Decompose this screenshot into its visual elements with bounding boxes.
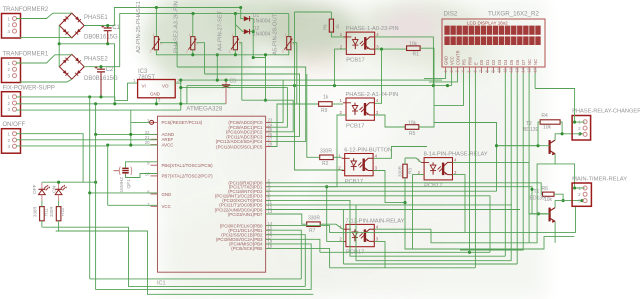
- svg-text:2: 2: [282, 49, 284, 53]
- wire T1 collector: [555, 201, 583, 208]
- wire T1 emitter: [554, 221, 556, 242]
- ATMEGA left pin labels: [145, 118, 213, 209]
- wire: [560, 122, 562, 134]
- svg-text:FIX-POWER-SUPP: FIX-POWER-SUPP: [3, 85, 55, 91]
- svg-text:D3: D3: [497, 59, 502, 65]
- wire: [84, 14, 288, 67]
- svg-text:8-14-PIN-PHASE-RELAY: 8-14-PIN-PHASE-RELAY: [424, 152, 488, 158]
- wire LCD GND: [424, 73, 446, 78]
- wire: [16, 13, 72, 18]
- resistor R5 10k: [405, 120, 419, 137]
- svg-text:PB7(XTAL2/TOSC2/PCI7): PB7(XTAL2/TOSC2/PCI7): [162, 174, 214, 179]
- svg-text:VCC: VCC: [162, 204, 171, 209]
- svg-text:D1: D1: [485, 59, 490, 65]
- wire 7805 ground: [155, 98, 157, 104]
- trimmer A5-PIN-28-OUT: [273, 13, 295, 55]
- ATMEGA right pin labels: [215, 118, 273, 252]
- wire LCD D4: [504, 73, 506, 256]
- wire GND pin8: [90, 97, 158, 193]
- svg-text:TUXGR_16X2_R2: TUXGR_16X2_R2: [488, 11, 539, 18]
- svg-text:PHASE-RELAY-CHANGER: PHASE-RELAY-CHANGER: [572, 109, 640, 115]
- resistor R11 330R: [33, 207, 49, 221]
- svg-text:2: 2: [186, 49, 188, 53]
- svg-text:14: 14: [520, 67, 525, 72]
- wire bus C: [96, 134, 312, 289]
- wire ON-OFF pin3: [16, 144, 108, 147]
- svg-text:1: 1: [152, 33, 154, 37]
- crystal QF1 16MHZ: [114, 167, 132, 193]
- wire: [375, 48, 407, 50]
- svg-text:330R: 330R: [33, 207, 38, 218]
- wire wiper A2: [160, 43, 177, 67]
- LCD display DIS2 TUXGR_16X2_R2: [442, 11, 545, 68]
- wire FIX pin1: [16, 97, 115, 104]
- wire LCD RS: [434, 73, 538, 191]
- connector FIX-POWER-SUPP: [2, 85, 55, 116]
- svg-text:C2: C2: [106, 67, 114, 73]
- wire: [453, 175, 466, 233]
- svg-text:28: 28: [268, 142, 273, 147]
- wire: [266, 214, 307, 224]
- svg-text:10k: 10k: [409, 42, 418, 48]
- svg-text:IC1: IC1: [157, 281, 166, 287]
- svg-text:16MHZ: 16MHZ: [119, 177, 125, 193]
- wire PD6: [266, 209, 520, 211]
- wire LCD CONTR: [429, 73, 458, 82]
- svg-text:D2: D2: [491, 59, 496, 65]
- capacitor C2: [95, 66, 114, 97]
- svg-text:VCC: VCC: [449, 56, 454, 65]
- optocoupler PHASE-2-A1-24-PIN: [340, 92, 399, 129]
- wire: [535, 89, 585, 123]
- wire diode outputs: [250, 19, 266, 101]
- wire: [343, 210, 517, 265]
- wire: [453, 162, 547, 213]
- svg-text:AREF: AREF: [162, 137, 174, 142]
- wire GND rail to LCD: [187, 85, 452, 87]
- svg-text:GND: GND: [150, 92, 161, 97]
- svg-text:330R: 330R: [49, 207, 54, 218]
- svg-text:16: 16: [532, 67, 537, 72]
- svg-text:15: 15: [526, 67, 531, 72]
- svg-text:PC6(/RESET/PCI14): PC6(/RESET/PCI14): [162, 120, 203, 125]
- svg-text:1: 1: [285, 33, 287, 37]
- resistor R4 10k: [540, 113, 560, 131]
- wire step: [405, 203, 574, 249]
- wire A1 rail: [181, 88, 288, 128]
- connector TRANFORMER1: [2, 52, 49, 83]
- svg-text:12: 12: [508, 67, 513, 72]
- wire: [192, 14, 194, 37]
- wire LCD RW: [469, 73, 471, 252]
- wire: [555, 164, 575, 187]
- svg-text:RS: RS: [461, 59, 466, 65]
- capacitor C3: [225, 80, 227, 104]
- wire LCD D7: [460, 73, 523, 250]
- svg-text:PHASE2-A3-26-PIN: PHASE2-A3-26-PIN: [174, 1, 180, 53]
- diode D1 1N4004: [244, 13, 271, 25]
- svg-text:BD139: BD139: [530, 196, 546, 202]
- wire LCD D5: [510, 73, 512, 261]
- wire PD4: [266, 200, 506, 256]
- svg-text:1N4004: 1N4004: [253, 19, 271, 25]
- svg-text:7-13-PIN-MAIN-RELAY: 7-13-PIN-MAIN-RELAY: [345, 218, 404, 224]
- wire: [16, 55, 72, 63]
- wire trimmer bottom bus: [156, 50, 288, 55]
- svg-text:11: 11: [503, 68, 508, 73]
- wire bus B: [42, 227, 305, 286]
- svg-text:PCB17: PCB17: [424, 183, 442, 189]
- svg-text:D4: D4: [503, 59, 508, 65]
- svg-text:D6: D6: [515, 59, 520, 65]
- svg-text:MAIN-TIMER-RELAY: MAIN-TIMER-RELAY: [572, 177, 627, 183]
- bridge rectifier PHASE1: [59, 13, 118, 40]
- svg-text:VI: VI: [142, 84, 146, 89]
- wire: [84, 8, 240, 26]
- wire: [538, 122, 540, 146]
- wire PB3: [266, 239, 320, 252]
- svg-text:PHASE2: PHASE2: [84, 57, 108, 63]
- svg-text:D5: D5: [509, 59, 514, 65]
- wire PB5: [266, 248, 476, 267]
- svg-text:PCB17: PCB17: [346, 57, 364, 63]
- connector PHASE-RELAY-CHANGER: [572, 109, 640, 141]
- svg-text:1k: 1k: [323, 95, 329, 101]
- svg-text:20: 20: [145, 140, 150, 145]
- svg-text:A2-PIN-25-PHASE1: A2-PIN-25-PHASE1: [136, 1, 142, 53]
- wire: [130, 110, 132, 145]
- wire wiper A5: [292, 43, 296, 104]
- wire GND rail: [16, 103, 226, 105]
- svg-text:DIS2: DIS2: [444, 11, 458, 18]
- svg-text:2: 2: [229, 49, 231, 53]
- trimmer PHASE2-A3-26-PIN: [174, 1, 199, 53]
- wire: [405, 158, 421, 164]
- wire: [186, 86, 188, 104]
- wire VCC rail: [181, 79, 442, 81]
- diode D2 1N4004: [244, 26, 271, 38]
- LCD pin labels: [443, 50, 538, 73]
- svg-text:GND: GND: [443, 56, 448, 65]
- svg-text:3: 3: [196, 42, 198, 46]
- wire: [534, 73, 536, 89]
- LCD cells: [444, 26, 540, 45]
- wire A5 rail: [266, 104, 319, 147]
- wire: [554, 194, 563, 200]
- wire: [575, 187, 585, 188]
- wire wiper A4: [239, 43, 242, 100]
- svg-text:R9: R9: [321, 108, 328, 114]
- svg-text:1: 1: [189, 33, 191, 37]
- svg-text:LCD DISPLAY 16x2: LCD DISPLAY 16x2: [467, 21, 508, 26]
- wire PD2: [266, 190, 497, 192]
- svg-text:10k: 10k: [543, 125, 552, 131]
- wire PD3: [266, 196, 490, 253]
- node GND rail: [58, 42, 61, 45]
- wire: [374, 49, 381, 103]
- svg-text:R4: R4: [541, 113, 548, 119]
- wire LCD E: [474, 73, 476, 268]
- svg-text:R6: R6: [542, 186, 549, 192]
- transistor T1 BD139: [530, 189, 556, 223]
- svg-text:QF1: QF1: [126, 179, 132, 189]
- svg-text:PHASE-1-A0-23-PIN: PHASE-1-A0-23-PIN: [346, 26, 399, 32]
- wire: [235, 14, 243, 32]
- wire AGND: [96, 104, 158, 135]
- capacitor C1: [101, 25, 120, 44]
- svg-text:PHASE1: PHASE1: [84, 15, 108, 21]
- connector TRANFORMER2: [2, 7, 49, 38]
- svg-text:1: 1: [231, 33, 233, 37]
- wire: [404, 178, 406, 203]
- wire: [307, 74, 320, 157]
- wire FIX pin3 / VO rail: [16, 109, 181, 111]
- wire A0 rail: [266, 80, 284, 122]
- node reset: [150, 120, 154, 124]
- svg-text:NC: NC: [533, 59, 538, 65]
- svg-text:R2: R2: [322, 161, 329, 167]
- wire: [356, 205, 511, 261]
- svg-text:R3: R3: [408, 168, 413, 174]
- wire: [413, 175, 425, 249]
- wire: [335, 49, 347, 86]
- svg-text:R10: R10: [60, 207, 65, 216]
- svg-text:PHASE-2-A1-24-PIN: PHASE-2-A1-24-PIN: [346, 92, 399, 98]
- svg-text:6-12-PIN-BUTTON: 6-12-PIN-BUTTON: [344, 148, 392, 154]
- wire: [331, 32, 343, 37]
- svg-text:TRANFORMER2: TRANFORMER2: [3, 7, 49, 13]
- wire PB4: [266, 244, 312, 290]
- wire PD5: [266, 204, 512, 206]
- wire: [332, 103, 343, 105]
- wire A4 rail: [177, 67, 306, 141]
- svg-text:(PCI23/AIN1)PD7: (PCI23/AIN1)PD7: [228, 212, 263, 217]
- transistor T2 BD139: [523, 121, 555, 155]
- wire: [42, 201, 59, 231]
- svg-text:(PCI5/SCK)PB5: (PCI5/SCK)PB5: [231, 246, 263, 251]
- svg-text:TRANFORMER1: TRANFORMER1: [3, 52, 49, 58]
- wire: [373, 171, 405, 203]
- wire T2 emitter: [431, 154, 555, 243]
- optocoupler 6-12-PIN-BUTTON: [338, 148, 392, 185]
- wire LED bus: [16, 134, 96, 183]
- resistor R8 1k: [322, 19, 340, 32]
- svg-text:330R: 330R: [398, 165, 403, 177]
- LED OFF: [32, 182, 50, 201]
- svg-text:10k: 10k: [408, 120, 417, 126]
- svg-text:10k: 10k: [544, 197, 553, 203]
- svg-text:NC: NC: [527, 59, 532, 65]
- wire LCD D6: [516, 73, 518, 264]
- wire: [375, 37, 434, 86]
- wire bus D: [56, 231, 314, 294]
- svg-text:330R: 330R: [308, 216, 320, 222]
- resistor R6 10k: [542, 186, 555, 203]
- svg-text:ATMEGA328: ATMEGA328: [186, 106, 223, 113]
- svg-text:1N4004: 1N4004: [253, 32, 271, 38]
- svg-text:DB0B1615G: DB0B1615G: [84, 35, 118, 41]
- wire: [333, 156, 342, 158]
- wire PB0: [266, 206, 576, 232]
- wire: [216, 55, 218, 80]
- svg-text:330R: 330R: [320, 148, 332, 154]
- wire: [20, 79, 72, 82]
- wire reset: [131, 121, 150, 123]
- wire xtal1: [126, 162, 158, 168]
- wire: [234, 14, 236, 37]
- wire 7805 VO: [175, 80, 181, 110]
- wire T2 collector: [555, 134, 583, 140]
- wire PB2: [266, 235, 306, 287]
- connector MAIN-TIMER-RELAY: [572, 177, 627, 207]
- svg-text:1k: 1k: [335, 24, 340, 29]
- svg-text:R11: R11: [44, 208, 49, 216]
- LED ON: [52, 182, 67, 201]
- svg-text:2: 2: [150, 49, 152, 53]
- wire: [320, 251, 490, 253]
- wire VCC pin7: [108, 145, 158, 205]
- svg-text:13: 13: [514, 67, 519, 72]
- wire AREF / ON-OFF pin2: [16, 139, 158, 141]
- svg-text:19: 19: [268, 244, 273, 249]
- wire: [250, 31, 253, 33]
- svg-text:A5-PIN-28-OUT: A5-PIN-28-OUT: [273, 13, 279, 55]
- trimmer A2-PIN-25-PHASE1: [136, 1, 162, 53]
- wire: [58, 26, 60, 67]
- wire: [373, 147, 427, 159]
- resistor R9 1k: [319, 95, 333, 114]
- wire: [374, 241, 385, 267]
- svg-text:AVCC: AVCC: [162, 142, 174, 147]
- wire LCD VCC: [451, 73, 453, 86]
- resistor R10 330R: [49, 207, 65, 221]
- wire T1 base: [529, 213, 550, 215]
- wire: [374, 228, 431, 230]
- wire T2 base: [497, 145, 550, 147]
- wire: [295, 12, 344, 170]
- svg-text:D7: D7: [521, 59, 526, 65]
- connector ON/OFF: [2, 122, 26, 153]
- wire wiper A3: [196, 43, 204, 74]
- wire: [59, 44, 137, 101]
- optocoupler PHASE-1-A0-23-PIN: [340, 26, 399, 63]
- bridge rectifier PHASE2: [59, 54, 118, 82]
- svg-text:ON/OFF: ON/OFF: [3, 122, 26, 128]
- svg-text:R8: R8: [322, 24, 327, 30]
- svg-text:R/W: R/W: [467, 57, 472, 65]
- resistor R1 10k: [407, 42, 421, 58]
- wire PD1: [266, 187, 550, 214]
- wire: [320, 224, 343, 229]
- svg-text:R5: R5: [409, 131, 416, 137]
- wire: [241, 8, 244, 19]
- svg-text:3: 3: [160, 42, 162, 46]
- wire AVCC: [108, 144, 158, 146]
- optocoupler 7-13-PIN-MAIN-RELAY: [339, 218, 404, 255]
- svg-text:R7: R7: [309, 228, 316, 234]
- svg-text:A4-PIN-27-SET: A4-PIN-27-SET: [218, 10, 224, 51]
- optocoupler 8-14-PIN-PHASE-RELAY: [418, 152, 488, 189]
- svg-text:OFF: OFF: [32, 184, 38, 194]
- IC1 ATMEGA328: [157, 106, 266, 287]
- svg-text:3: 3: [239, 42, 241, 46]
- svg-text:21: 21: [145, 135, 150, 140]
- wire: [288, 14, 290, 37]
- wire PB1: [266, 230, 302, 279]
- wire: [374, 115, 405, 127]
- svg-text:BD139: BD139: [523, 127, 539, 133]
- svg-text:E: E: [473, 62, 478, 65]
- wire: [155, 8, 157, 37]
- svg-text:GND: GND: [162, 192, 172, 197]
- resistor R3 330R: [398, 164, 413, 178]
- svg-text:T1: T1: [534, 189, 540, 195]
- wire PD0: [266, 183, 543, 194]
- svg-text:10: 10: [497, 67, 502, 72]
- wire xtal2: [126, 174, 158, 178]
- wire bus A: [90, 193, 302, 279]
- wire: [327, 187, 343, 242]
- wire A2 rail: [242, 100, 293, 132]
- svg-text:(PCI13/ADC5/SCL)PC5: (PCI13/ADC5/SCL)PC5: [216, 144, 263, 149]
- svg-text:CONTR: CONTR: [455, 50, 460, 65]
- wire: [20, 37, 72, 39]
- svg-text:R1: R1: [413, 52, 420, 58]
- svg-text:D0: D0: [479, 59, 484, 65]
- resistor R2 330R: [320, 148, 334, 167]
- svg-text:PCB17: PCB17: [345, 179, 363, 185]
- svg-text:PCB17: PCB17: [346, 123, 364, 129]
- wire: [528, 73, 530, 243]
- wire: [419, 123, 434, 128]
- trimmer A4-PIN-27-SET: [218, 10, 242, 53]
- resistor R7 330R: [307, 216, 321, 235]
- wire: [327, 115, 346, 187]
- svg-text:VO: VO: [162, 84, 169, 89]
- wire A3 rail: [205, 74, 300, 137]
- regulator IC3 7805T: [133, 69, 180, 103]
- svg-text:C3: C3: [230, 79, 237, 85]
- svg-text:PB6(XTAL1/TOSC1/PCI6): PB6(XTAL1/TOSC1/PCI6): [162, 163, 214, 168]
- wire: [420, 48, 434, 105]
